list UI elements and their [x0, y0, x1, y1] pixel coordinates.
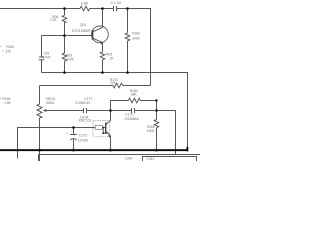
resistor R03 vertical	[64, 36, 66, 54]
resistor R166 100K	[156, 111, 158, 120]
svg-text:C172: C172	[125, 112, 133, 116]
wire R1 to base bar	[102, 127, 105, 129]
wire top rail mid segment	[90, 8, 114, 10]
wire C172 to node	[135, 110, 157, 112]
resistor R163 vertical	[127, 9, 129, 33]
node C173 top	[72, 126, 75, 129]
resistor R164 68K	[128, 98, 140, 103]
tick marks R165	[0, 99, 4, 103]
transistor Q01	[92, 26, 109, 43]
svg-text:22K: 22K	[5, 49, 12, 53]
node top rail R04	[63, 7, 66, 10]
svg-text:2.2K: 2.2K	[50, 18, 58, 22]
wire base feed line	[18, 128, 96, 159]
wiper arrow VR101	[45, 110, 58, 112]
node bus VR101	[38, 149, 41, 152]
wire Q01 emitter	[102, 43, 104, 52]
node internal dots	[102, 127, 104, 129]
wire wiper to C171	[58, 110, 84, 112]
ground bus thick black line	[0, 149, 188, 151]
svg-text:1K: 1K	[110, 56, 115, 60]
wire Q01 collector	[102, 9, 104, 28]
svg-text:+: +	[66, 132, 68, 136]
svg-text:0.0068 AX: 0.0068 AX	[75, 101, 91, 105]
svg-text:R163: R163	[132, 32, 140, 36]
svg-text:10/16V: 10/16V	[78, 139, 89, 143]
svg-text:C304: C304	[125, 156, 133, 160]
transistor D154 bar	[105, 123, 107, 134]
resistor internal R1	[95, 126, 102, 130]
svg-text:0.047: 0.047	[42, 56, 50, 60]
box C312	[143, 157, 197, 162]
capacitor C172	[131, 108, 133, 113]
node C171 collector	[109, 109, 112, 112]
svg-text:Q01: Q01	[80, 23, 86, 27]
wire D154 emitter	[106, 131, 110, 135]
wire top rail right segment	[117, 8, 152, 10]
resistor 6.8K	[80, 6, 90, 11]
capacitor C173 electrolytic	[73, 128, 75, 135]
node mid rail R163	[126, 71, 129, 74]
tick marks R160	[1, 46, 4, 51]
wire thin bottom line	[39, 155, 201, 162]
wire internal R2	[103, 128, 108, 134]
svg-text:100K: 100K	[132, 37, 141, 41]
svg-text:0.1 AX: 0.1 AX	[111, 1, 122, 5]
svg-text:C312: C312	[146, 157, 154, 161]
svg-text:50KA: 50KA	[46, 101, 55, 105]
svg-text:470K: 470K	[66, 58, 75, 62]
wire R170 line to VR101	[40, 85, 114, 87]
resistor R170 22K	[113, 83, 123, 88]
wire mid rail	[42, 72, 189, 74]
svg-text:100K: 100K	[147, 129, 156, 133]
wire R164 branch left	[111, 101, 129, 111]
svg-text:0.0068AX: 0.0068AX	[125, 117, 140, 121]
wire node to right corner	[157, 111, 176, 155]
resistor R05 1K emitter	[100, 52, 104, 60]
wire base line	[42, 35, 93, 37]
wire R164 branch right	[140, 101, 156, 111]
svg-text:KRC101: KRC101	[79, 119, 92, 123]
capacitor C171	[83, 108, 85, 113]
svg-text:22K: 22K	[110, 81, 117, 85]
svg-text:R160: R160	[6, 45, 14, 49]
svg-text:6.8K: 6.8K	[81, 1, 89, 5]
svg-text:68K: 68K	[131, 92, 138, 96]
wire top rail left segment	[0, 8, 80, 10]
node bus C173	[72, 149, 75, 152]
node top rail R163	[126, 7, 129, 10]
wire D154 collector	[106, 111, 111, 125]
wire C172 segment	[111, 110, 132, 112]
wire right outer vertical	[187, 73, 189, 148]
transistor D154 KRC101 dashed box	[93, 121, 110, 137]
node mid rail R03	[63, 71, 66, 74]
svg-text:C173: C173	[79, 134, 87, 138]
capacitor C01 branch	[41, 36, 43, 58]
wire right vertical from top rail to R170 line	[150, 9, 152, 86]
svg-text:10K: 10K	[5, 101, 12, 105]
node mid rail emitter	[101, 71, 104, 74]
wire C171 to node	[87, 110, 111, 112]
resistor R04 vertical	[64, 9, 66, 16]
wire R170 line	[123, 85, 151, 87]
capacitor 0.1AX	[113, 6, 115, 11]
node bus emitter D154	[109, 149, 112, 152]
node top rail collector	[101, 7, 104, 10]
node C172 right	[155, 109, 158, 112]
node bus R166	[155, 149, 158, 152]
node base line	[63, 34, 66, 37]
svg-text:KTC3198GR: KTC3198GR	[72, 29, 91, 33]
node R164 corner	[155, 99, 157, 101]
potentiometer VR101	[39, 86, 41, 105]
